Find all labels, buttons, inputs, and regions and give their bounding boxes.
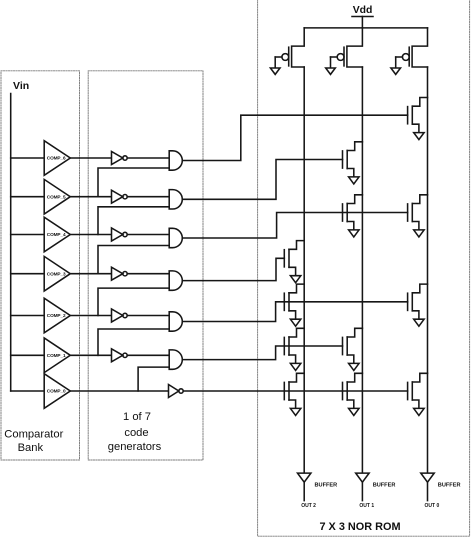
svg-text:generators: generators — [108, 441, 162, 453]
svg-text:Vin: Vin — [13, 80, 29, 92]
svg-text:COMP_1: COMP_1 — [47, 353, 66, 358]
svg-text:code: code — [124, 427, 148, 439]
svg-text:OUT 2: OUT 2 — [301, 503, 316, 509]
svg-text:BUFFER: BUFFER — [438, 482, 461, 488]
svg-text:COMP_4: COMP_4 — [47, 232, 66, 237]
svg-text:COMP_0: COMP_0 — [47, 389, 66, 394]
svg-text:COMP_6: COMP_6 — [47, 156, 66, 161]
svg-text:Comparator: Comparator — [4, 428, 63, 440]
svg-text:Vdd: Vdd — [353, 5, 373, 16]
svg-text:OUT 1: OUT 1 — [359, 503, 374, 509]
svg-text:1 of 7: 1 of 7 — [123, 411, 151, 423]
svg-text:7 X 3 NOR ROM: 7 X 3 NOR ROM — [319, 521, 400, 533]
svg-text:COMP_3: COMP_3 — [47, 271, 66, 276]
svg-text:COMP_5: COMP_5 — [47, 194, 66, 199]
svg-text:BUFFER: BUFFER — [315, 482, 338, 488]
svg-text:Bank: Bank — [18, 442, 44, 454]
svg-text:OUT 0: OUT 0 — [425, 503, 440, 509]
svg-text:BUFFER: BUFFER — [373, 482, 396, 488]
svg-text:COMP_2: COMP_2 — [47, 313, 66, 318]
